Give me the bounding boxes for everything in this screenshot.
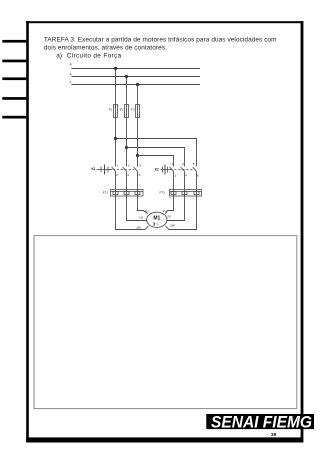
motor terminal label 2V bbox=[167, 215, 172, 219]
svg-text:5: 5 bbox=[139, 164, 141, 168]
overload relay FT2 label bbox=[160, 190, 166, 194]
svg-text:Circuito de Força: Circuito de Força bbox=[67, 52, 122, 59]
svg-text:2W: 2W bbox=[170, 224, 175, 228]
svg-text:1U: 1U bbox=[145, 209, 149, 213]
svg-text:6: 6 bbox=[139, 173, 141, 177]
svg-text:39: 39 bbox=[271, 432, 277, 438]
node junction R-L1 bbox=[114, 67, 117, 70]
contactor K2 pin labels bottom 2 4 6 bbox=[175, 173, 199, 177]
contactor K1 pin labels bottom 2 4 6 bbox=[116, 173, 141, 177]
wire branch L1 to K2 pole 5 bbox=[116, 139, 197, 167]
wire K1 pole 3 to motor 1U bbox=[138, 171, 148, 214]
contactor K2 linkage bbox=[170, 169, 193, 171]
fuse F1 bbox=[109, 105, 118, 118]
contactor K2 label bbox=[155, 167, 159, 171]
wire branch L3 to K2 pole 1 bbox=[138, 156, 174, 167]
contactor K1 linkage bbox=[109, 169, 135, 171]
motor terminal label 1V bbox=[139, 215, 144, 219]
contactor K2 pole contacts bbox=[170, 167, 197, 171]
svg-text:1: 1 bbox=[171, 162, 173, 166]
svg-text:2: 2 bbox=[116, 173, 118, 177]
motor terminal label 1W bbox=[136, 225, 141, 229]
svg-text:3 ~: 3 ~ bbox=[153, 221, 159, 226]
wire L1 vertical drop bbox=[115, 69, 117, 167]
node branch L1 bbox=[114, 137, 117, 140]
wire K2 pole 1 to motor 2U bbox=[165, 171, 173, 214]
contactor K2 pin labels top 1 3 5 bbox=[171, 162, 194, 166]
node branch L3 bbox=[136, 154, 139, 157]
wire L2 vertical drop bbox=[126, 77, 128, 167]
svg-text:SENAI FIEMG: SENAI FIEMG bbox=[211, 413, 312, 432]
motor terminal label 1U bbox=[145, 209, 149, 213]
wire L3 vertical drop bbox=[137, 85, 139, 167]
contactor K1 pole contacts bbox=[112, 167, 138, 171]
overload relay FT2 bbox=[170, 190, 202, 197]
svg-text:3: 3 bbox=[182, 162, 184, 166]
svg-text:a): a) bbox=[56, 52, 62, 59]
svg-text:FT2: FT2 bbox=[160, 190, 166, 194]
node junction S-L2 bbox=[125, 75, 128, 78]
motor terminal label 2U bbox=[163, 209, 167, 213]
svg-text:F2: F2 bbox=[120, 107, 124, 111]
node junction T-L3 bbox=[136, 83, 139, 86]
svg-text:4: 4 bbox=[185, 173, 187, 177]
svg-text:F1: F1 bbox=[109, 107, 113, 111]
svg-text:1W: 1W bbox=[136, 225, 141, 229]
label T bbox=[70, 81, 72, 85]
fuse F2 bbox=[120, 105, 129, 118]
wire K1 pole 1 to motor 1W bbox=[116, 171, 149, 229]
svg-text:2U: 2U bbox=[163, 209, 167, 213]
label R bbox=[70, 62, 73, 66]
svg-text:FT1: FT1 bbox=[103, 190, 109, 194]
overload relay FT1 label bbox=[103, 190, 109, 194]
contactor K2 actuator bbox=[161, 165, 171, 175]
wire branch L2 to K2 pole 3 bbox=[127, 148, 185, 167]
svg-text:1: 1 bbox=[117, 164, 119, 168]
svg-text:S: S bbox=[70, 72, 72, 76]
svg-text:2: 2 bbox=[175, 173, 177, 177]
wire K1 pole 2 to motor 1V bbox=[127, 171, 147, 220]
wire supply line S bbox=[72, 76, 201, 78]
overload relay FT1 bbox=[111, 190, 144, 197]
svg-text:3: 3 bbox=[128, 164, 130, 168]
wire K2 pole 3 to motor 2W bbox=[166, 171, 197, 229]
fuse F3 bbox=[131, 105, 140, 118]
motor terminal label 2W bbox=[170, 224, 175, 228]
wire K2 pole 2 to motor 2V bbox=[167, 171, 185, 220]
svg-text:dois enrolamentos, através de: dois enrolamentos, através de contatores… bbox=[44, 45, 167, 52]
svg-text:4: 4 bbox=[127, 173, 129, 177]
wire supply line T bbox=[72, 84, 201, 86]
contactor K1 actuator bbox=[97, 165, 113, 175]
wire supply line R bbox=[72, 68, 201, 70]
contactor K1 pin labels top 1 3 5 bbox=[117, 164, 142, 168]
svg-text:T: T bbox=[70, 81, 72, 85]
svg-text:K1: K1 bbox=[92, 167, 96, 171]
svg-text:K2: K2 bbox=[155, 167, 159, 171]
node branch L2 bbox=[125, 146, 128, 149]
svg-text:5: 5 bbox=[193, 162, 195, 166]
label S bbox=[70, 72, 72, 76]
contactor K1 label bbox=[92, 167, 96, 171]
svg-text:F3: F3 bbox=[131, 107, 135, 111]
motor M1 bbox=[147, 212, 167, 227]
svg-text:6: 6 bbox=[197, 173, 199, 177]
svg-text:TAREFA 3: Executar a partida d: TAREFA 3: Executar a partida de motores … bbox=[44, 37, 277, 44]
